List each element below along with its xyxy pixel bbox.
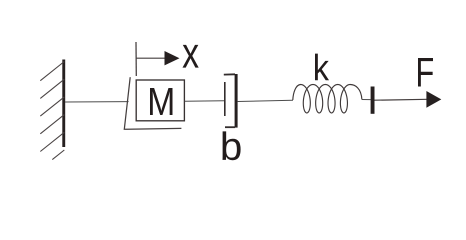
force arrow line	[375, 98, 428, 101]
label F	[418, 58, 433, 87]
label k	[315, 54, 329, 81]
label x	[183, 45, 199, 68]
damper piston plate	[224, 82, 226, 116]
damper cylinder top flange	[224, 73, 235, 75]
mass offset outline	[124, 77, 181, 129]
displacement arrow line	[136, 57, 166, 59]
force end plate	[371, 87, 375, 114]
wall hatching	[40, 62, 64, 160]
force arrowhead	[426, 91, 441, 108]
damper cylinder bottom flange	[225, 126, 235, 128]
mass label M	[150, 88, 172, 115]
damper cylinder right wall	[235, 74, 238, 128]
label b	[223, 131, 241, 160]
wire rod2 mass to damper	[185, 100, 224, 102]
mass M box	[136, 80, 184, 121]
wire rod3 damper to spring	[238, 100, 293, 101]
wall	[62, 60, 65, 148]
displacement arrowhead	[165, 51, 180, 65]
wire rod1 wall to mass	[65, 101, 129, 103]
spring exit wire	[362, 99, 371, 101]
displacement reference tick	[135, 42, 137, 76]
spring k coil	[293, 85, 362, 113]
